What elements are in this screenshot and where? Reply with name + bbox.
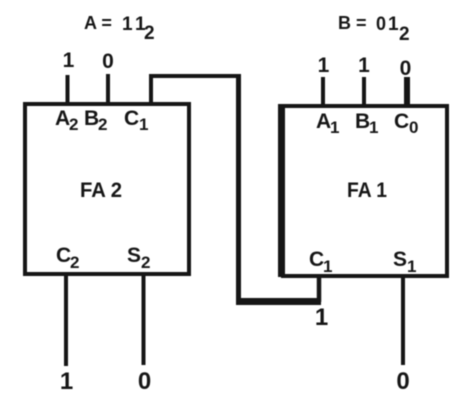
svg-text:FA 2: FA 2 — [80, 179, 122, 202]
svg-text:1: 1 — [369, 118, 378, 137]
full adder FA1 box — [283, 106, 447, 276]
svg-text:0: 0 — [396, 368, 409, 395]
wire carry from FA1 C1 to FA2 C1 (top section) — [151, 76, 238, 106]
wire C2 output — [64, 276, 68, 366]
svg-text:2: 2 — [399, 24, 410, 45]
svg-text:A: A — [316, 110, 331, 133]
svg-text:B: B — [84, 107, 99, 130]
svg-text:0: 0 — [376, 14, 386, 35]
pin label C0 — [394, 110, 418, 137]
svg-text:1: 1 — [63, 49, 75, 72]
svg-text:0: 0 — [102, 50, 114, 73]
svg-text:0: 0 — [409, 118, 418, 137]
svg-text:1: 1 — [407, 257, 416, 276]
wire C0 input stub (bold) — [404, 77, 410, 108]
FA1 bold left edge — [278, 104, 284, 277]
wire B1 input stub — [362, 77, 366, 108]
svg-text:1: 1 — [122, 14, 133, 35]
wire carry vertical right section — [236, 74, 241, 303]
wire S1 output — [401, 277, 405, 365]
svg-text:2: 2 — [144, 23, 155, 44]
svg-text:0: 0 — [400, 57, 412, 80]
svg-text:2: 2 — [69, 115, 78, 134]
svg-text:C: C — [56, 244, 71, 267]
pin label A1 — [316, 110, 339, 137]
pin label B2 — [84, 107, 107, 134]
wire A2 input stub — [66, 75, 70, 106]
svg-text:1: 1 — [315, 304, 328, 331]
svg-text:2: 2 — [98, 115, 107, 134]
pin label S1 — [393, 248, 416, 276]
svg-text:2: 2 — [141, 253, 150, 272]
full adder FA2 box — [25, 104, 189, 274]
label B = 01_2 — [338, 13, 410, 45]
pin label S2 — [127, 244, 150, 272]
pin label A2 — [55, 107, 78, 134]
svg-text:B =: B = — [338, 13, 367, 33]
svg-text:FA 1: FA 1 — [347, 179, 387, 202]
svg-text:1: 1 — [330, 118, 339, 137]
pin label C2 — [56, 244, 79, 272]
svg-text:C: C — [124, 107, 139, 130]
pin label C1 (FA1 output) — [309, 248, 332, 276]
wire carry bold bottom horizontal — [236, 298, 321, 305]
svg-text:1: 1 — [323, 257, 332, 276]
svg-text:1: 1 — [358, 54, 370, 77]
svg-text:B: B — [355, 110, 370, 133]
wire S2 output — [142, 276, 146, 365]
svg-text:S: S — [393, 248, 407, 271]
svg-text:S: S — [127, 244, 141, 267]
svg-text:1: 1 — [139, 115, 148, 134]
svg-text:1: 1 — [60, 368, 73, 395]
svg-text:1: 1 — [318, 54, 330, 77]
svg-text:0: 0 — [138, 368, 151, 395]
svg-text:2: 2 — [70, 253, 79, 272]
svg-text:C: C — [309, 248, 324, 271]
pin label C1 (FA2 input) — [124, 107, 148, 134]
label A = 11_2 — [84, 13, 155, 44]
pin label B1 — [355, 110, 378, 137]
svg-text:C: C — [394, 110, 409, 133]
svg-text:A: A — [55, 107, 70, 130]
wire B2 input stub — [106, 74, 110, 106]
wire A1 input stub — [321, 77, 325, 108]
svg-text:A =: A = — [84, 13, 112, 33]
svg-text:1: 1 — [388, 14, 399, 35]
wire C1 output stub of FA1 — [317, 276, 322, 302]
